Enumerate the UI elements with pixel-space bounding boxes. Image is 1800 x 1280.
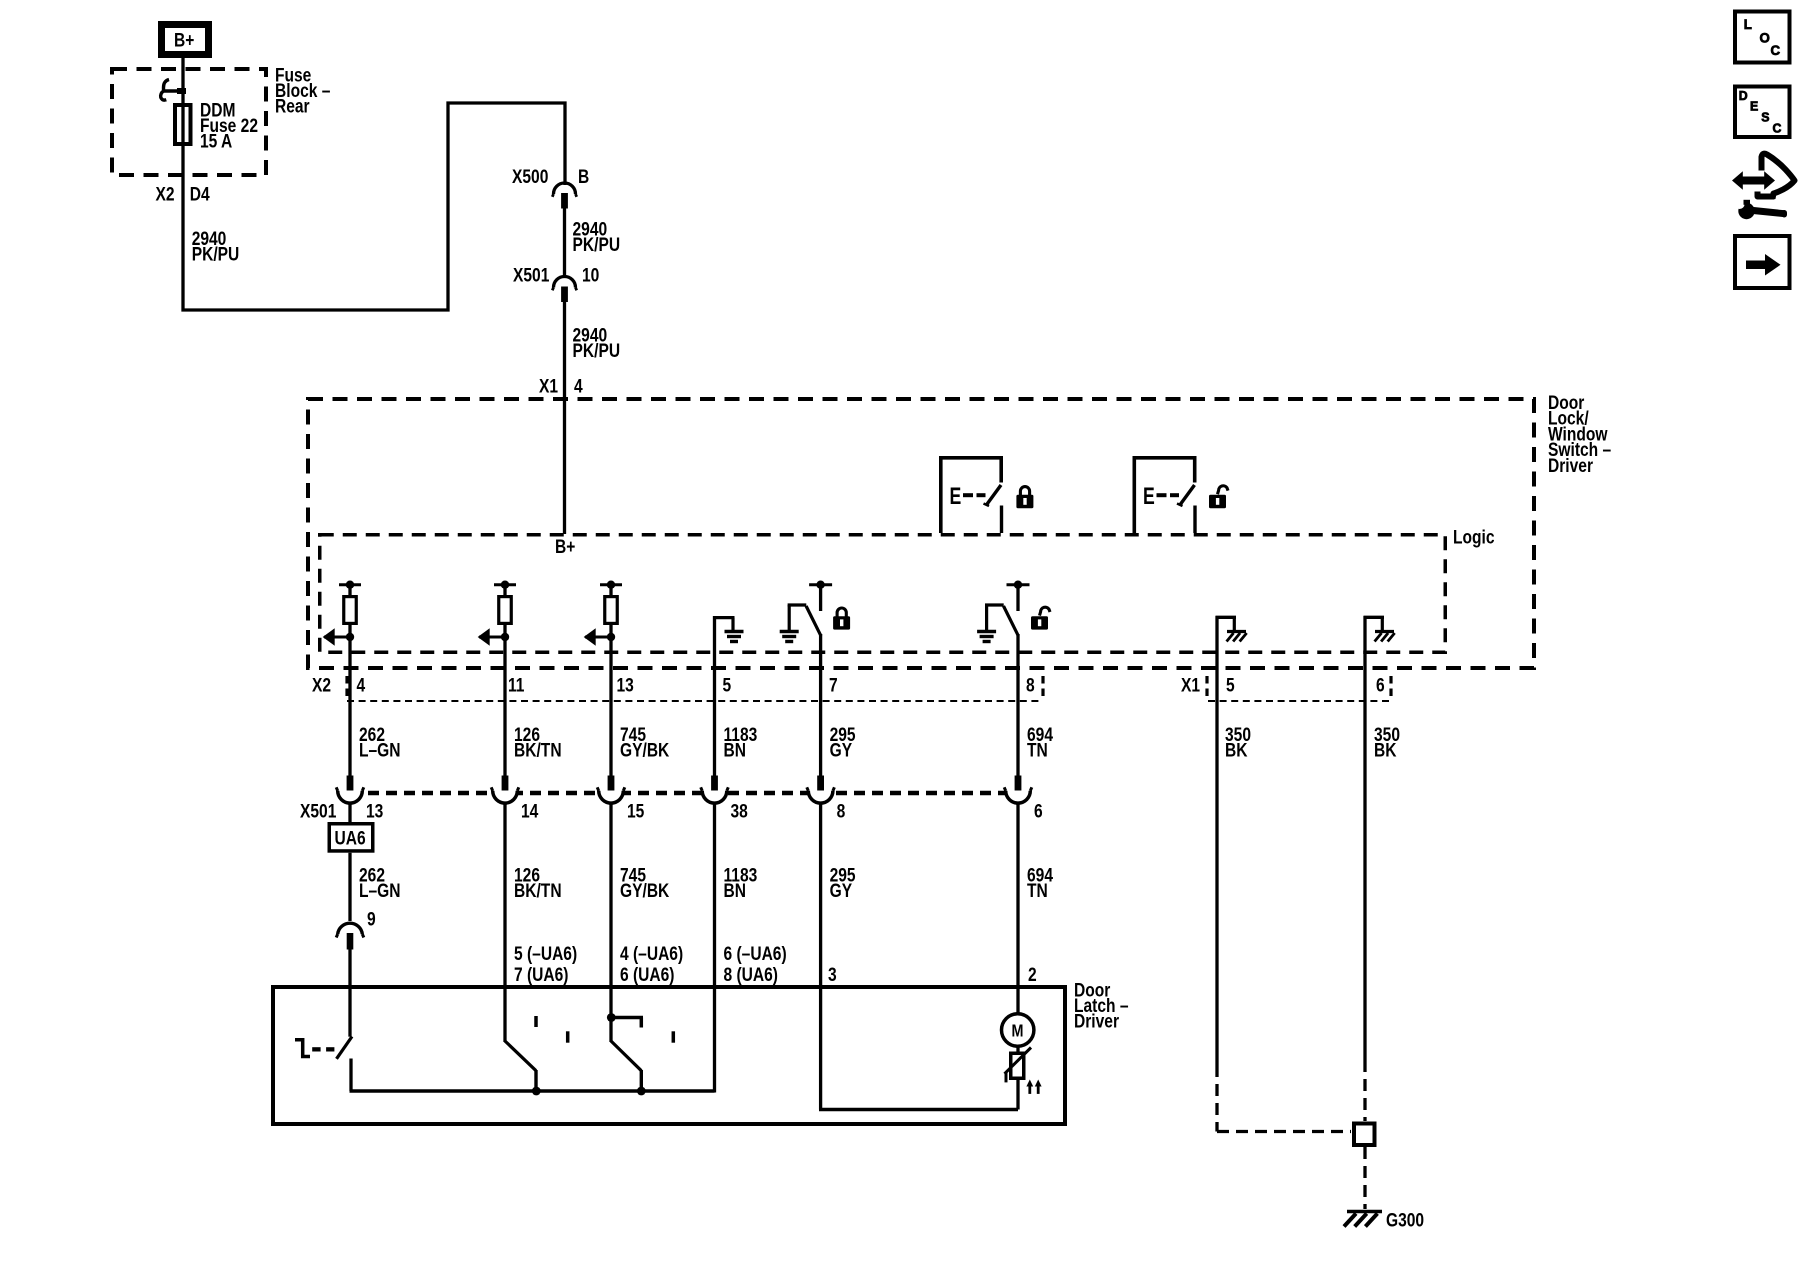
svg-text:10: 10 (582, 264, 599, 286)
svg-text:BK/TN: BK/TN (514, 739, 562, 761)
svg-text:38: 38 (731, 800, 749, 822)
svg-text:7: 7 (829, 674, 838, 696)
svg-text:4: 4 (574, 375, 583, 397)
svg-text:B+: B+ (174, 29, 194, 51)
svg-text:15: 15 (627, 800, 645, 822)
svg-text:GY: GY (830, 739, 853, 761)
svg-text:C: C (1771, 43, 1781, 58)
svg-text:BK/TN: BK/TN (514, 880, 562, 902)
svg-text:4: 4 (357, 674, 366, 696)
svg-text:E: E (1143, 482, 1155, 510)
svg-text:PK/PU: PK/PU (192, 243, 240, 265)
svg-text:D: D (1739, 89, 1748, 103)
svg-text:E: E (1750, 99, 1758, 113)
svg-text:UA6: UA6 (335, 827, 366, 849)
svg-text:5: 5 (1226, 674, 1235, 696)
svg-text:8 (UA6): 8 (UA6) (724, 964, 779, 986)
svg-text:Driver: Driver (1074, 1010, 1119, 1032)
svg-text:BN: BN (724, 880, 746, 902)
svg-text:7 (UA6): 7 (UA6) (514, 964, 569, 986)
svg-text:PK/PU: PK/PU (573, 340, 621, 362)
svg-text:X501: X501 (513, 264, 550, 286)
svg-text:13: 13 (366, 800, 384, 822)
svg-text:X1: X1 (1181, 674, 1200, 696)
svg-text:5 (–UA6): 5 (–UA6) (514, 942, 577, 964)
svg-text:X2: X2 (156, 183, 175, 205)
svg-text:TN: TN (1027, 880, 1048, 902)
svg-text:B: B (578, 166, 589, 188)
svg-text:X1: X1 (539, 375, 558, 397)
svg-text:9: 9 (367, 908, 376, 930)
svg-text:GY/BK: GY/BK (620, 880, 670, 902)
svg-text:4 (–UA6): 4 (–UA6) (620, 942, 683, 964)
svg-text:O: O (1760, 30, 1771, 45)
svg-text:X2: X2 (312, 674, 331, 696)
svg-text:BK: BK (1374, 739, 1397, 761)
svg-text:TN: TN (1027, 739, 1048, 761)
svg-text:2: 2 (1028, 964, 1037, 986)
svg-text:15 A: 15 A (200, 130, 233, 152)
svg-text:6 (–UA6): 6 (–UA6) (724, 942, 787, 964)
svg-text:L–GN: L–GN (359, 880, 401, 902)
svg-text:GY/BK: GY/BK (620, 739, 670, 761)
svg-text:3: 3 (828, 964, 837, 986)
svg-text:C: C (1773, 121, 1782, 135)
svg-text:Driver: Driver (1548, 454, 1593, 476)
svg-text:6: 6 (1376, 674, 1385, 696)
svg-text:L: L (1744, 16, 1752, 31)
svg-text:8: 8 (837, 800, 846, 822)
svg-text:B+: B+ (555, 536, 575, 558)
svg-text:X501: X501 (300, 800, 337, 822)
svg-text:X500: X500 (512, 166, 548, 188)
svg-text:Logic: Logic (1453, 526, 1495, 548)
svg-text:13: 13 (617, 674, 635, 696)
svg-text:6 (UA6): 6 (UA6) (620, 964, 675, 986)
svg-text:11: 11 (508, 674, 525, 696)
svg-text:Rear: Rear (275, 95, 310, 117)
svg-text:5: 5 (723, 674, 732, 696)
svg-text:E: E (950, 482, 962, 510)
svg-text:BN: BN (724, 739, 746, 761)
svg-text:D4: D4 (190, 183, 210, 205)
svg-text:GY: GY (830, 880, 853, 902)
svg-text:BK: BK (1225, 739, 1248, 761)
svg-text:PK/PU: PK/PU (573, 234, 621, 256)
svg-text:8: 8 (1026, 674, 1035, 696)
svg-text:6: 6 (1034, 800, 1043, 822)
svg-text:M: M (1012, 1022, 1024, 1041)
svg-text:L–GN: L–GN (359, 739, 401, 761)
svg-text:14: 14 (521, 800, 539, 822)
svg-text:S: S (1761, 110, 1769, 124)
svg-text:G300: G300 (1386, 1209, 1424, 1231)
